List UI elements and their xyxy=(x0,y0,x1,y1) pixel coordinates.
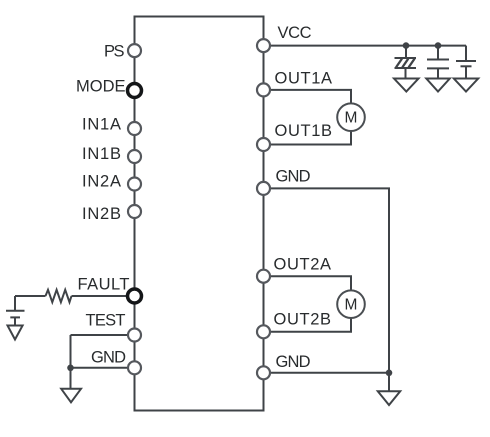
svg-text:GND: GND xyxy=(91,349,126,367)
svg-text:VCC: VCC xyxy=(278,24,312,42)
svg-text:TEST: TEST xyxy=(86,312,126,330)
svg-text:MODE: MODE xyxy=(76,78,126,96)
svg-text:IN1B: IN1B xyxy=(82,145,121,163)
svg-text:IN2A: IN2A xyxy=(82,173,121,191)
svg-text:M: M xyxy=(345,110,358,127)
svg-text:IN2B: IN2B xyxy=(82,205,121,223)
svg-text:OUT1B: OUT1B xyxy=(275,122,333,140)
svg-text:FAULT: FAULT xyxy=(78,276,130,294)
svg-text:OUT1A: OUT1A xyxy=(275,70,333,88)
svg-text:OUT2B: OUT2B xyxy=(274,311,332,329)
svg-text:PS: PS xyxy=(104,43,125,61)
svg-text:OUT2A: OUT2A xyxy=(274,256,332,274)
svg-text:GND: GND xyxy=(276,168,311,186)
svg-text:GND: GND xyxy=(276,353,311,371)
svg-text:M: M xyxy=(345,297,358,314)
svg-text:IN1A: IN1A xyxy=(82,116,121,134)
